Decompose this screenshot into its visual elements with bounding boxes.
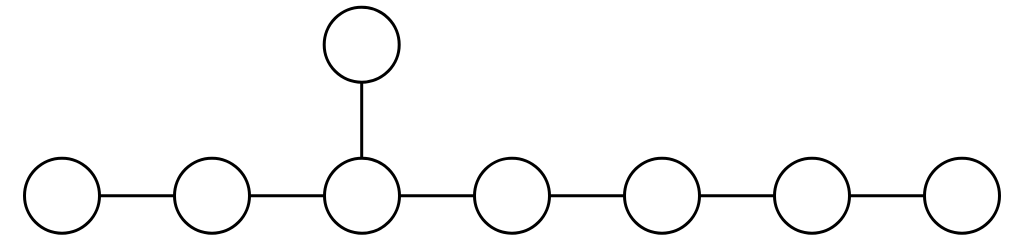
node 1 bbox=[25, 158, 100, 233]
node 2 bbox=[175, 158, 250, 233]
edge node2-node3 bbox=[250, 194, 325, 197]
edge node6-node7 bbox=[850, 194, 925, 197]
edge node1-node2 bbox=[100, 194, 175, 197]
node 7 bbox=[925, 158, 1000, 233]
edge node4-node5 bbox=[550, 194, 625, 197]
node 6 bbox=[775, 158, 850, 233]
edge node3-node8 (vertical) bbox=[360, 82, 363, 158]
edge node3-node4 bbox=[400, 194, 475, 197]
node 3 bbox=[325, 158, 400, 233]
node 8 (top) bbox=[324, 7, 399, 82]
node 5 bbox=[625, 158, 700, 233]
node 4 bbox=[475, 158, 550, 233]
edge node5-node6 bbox=[700, 194, 775, 197]
